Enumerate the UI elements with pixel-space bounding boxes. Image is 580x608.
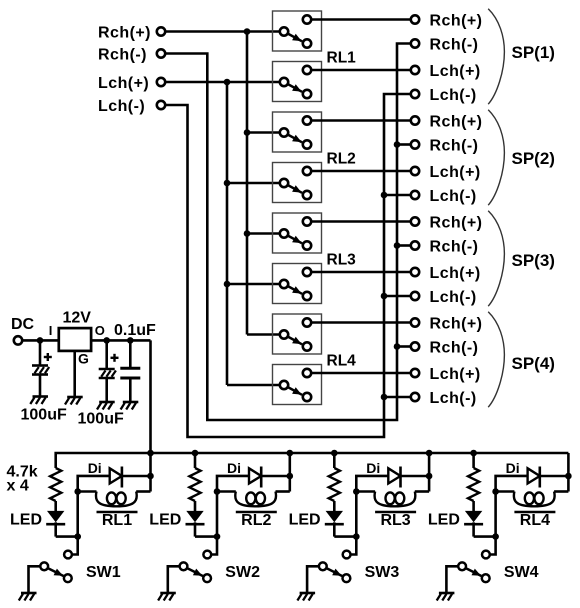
node cathode junction 1 <box>74 533 81 540</box>
wire coil right shoulder 2 <box>276 490 290 493</box>
node Lch(-) bus junction SP(3) <box>381 293 388 300</box>
wire DC to regulator <box>22 339 59 342</box>
wire R2 to LED2 <box>194 501 197 511</box>
svg-text:LED: LED <box>149 511 181 528</box>
label Di2 <box>227 460 241 476</box>
LED D3 <box>325 511 344 537</box>
wire SW2 to ground <box>168 566 180 593</box>
node cathode junction 4 <box>492 533 499 540</box>
svg-text:RL2: RL2 <box>241 512 271 529</box>
wire node up to diode anode 4 <box>496 476 528 537</box>
label Di4 <box>506 460 520 476</box>
wire SW1 to ground <box>29 566 41 593</box>
wire LED2 to node <box>195 535 217 538</box>
node Lch(+) bus junction <box>224 79 231 86</box>
wire node to switch 2 <box>211 537 217 555</box>
input terminal Rch(+) <box>98 24 165 41</box>
relay coil RL1 <box>96 492 137 507</box>
svg-text:SP(4): SP(4) <box>512 354 555 373</box>
brace SP(1) group <box>488 9 504 105</box>
wire regulator ground pin <box>73 351 76 397</box>
capacitor C3 0.1uF <box>120 340 140 402</box>
label DC <box>11 316 35 333</box>
svg-text:Lch(-): Lch(-) <box>98 98 145 115</box>
wire rail down to coil right 2 <box>288 453 291 492</box>
wire diode cathode 4 <box>540 475 569 478</box>
pin G <box>78 351 89 367</box>
capacitor C1 100uF <box>32 340 52 396</box>
coil overline RL4 <box>514 511 555 513</box>
svg-text:SP(3): SP(3) <box>512 251 555 270</box>
ground C2 <box>97 402 115 410</box>
label Di1 <box>88 460 102 476</box>
svg-text:DC: DC <box>11 316 35 333</box>
label SP(4) <box>512 354 555 373</box>
node Lch(+) bus to RL2 junction <box>224 180 231 187</box>
diode Di3 <box>388 467 400 488</box>
diode Di4 <box>528 467 540 488</box>
svg-text:Rch(-): Rch(-) <box>430 36 479 53</box>
svg-text:0.1uF: 0.1uF <box>114 322 156 339</box>
wire coil right shoulder 1 <box>136 490 150 493</box>
label RL2 <box>327 151 356 168</box>
svg-text:RL3: RL3 <box>380 512 410 529</box>
svg-text:LED: LED <box>289 511 321 528</box>
svg-text:Lch(-): Lch(-) <box>430 87 477 104</box>
svg-text:Lch(-): Lch(-) <box>430 390 477 407</box>
node Lch(-) bus junction SP(4) <box>381 394 388 401</box>
wire rail down to coil right 1 <box>149 453 152 492</box>
wire R1 to LED1 <box>54 501 57 511</box>
label 12V <box>63 310 92 327</box>
relay coil RL4 <box>514 492 555 507</box>
svg-text:Lch(+): Lch(+) <box>430 63 481 80</box>
label 100uF C1 <box>21 407 67 424</box>
coil overline RL3 <box>375 511 416 513</box>
label SW3 <box>365 564 400 581</box>
wire coil left shoulder 4 <box>496 490 515 493</box>
output terminal SP(1) Lch(-) <box>411 87 477 104</box>
node diode cathode junction 2 <box>287 473 294 480</box>
output terminal SP(4) Rch(+) <box>411 315 483 332</box>
terminal DC input <box>14 336 22 344</box>
svg-text:G: G <box>78 351 89 367</box>
output terminal SP(3) Lch(-) <box>411 289 477 306</box>
relay RL1 Rch contact <box>273 11 322 51</box>
LED D2 <box>186 511 205 537</box>
svg-text:SW2: SW2 <box>225 564 260 581</box>
wire LED4 to node <box>474 535 496 538</box>
switch SW4 <box>458 551 490 583</box>
wire coil right shoulder 3 <box>415 490 429 493</box>
wire rail to R4 <box>472 453 475 468</box>
ground SW4 <box>437 593 455 601</box>
node output cap junction <box>103 337 110 344</box>
wire rail down to coil right 3 <box>428 453 431 492</box>
relay RL2 Rch contact <box>273 112 322 152</box>
output terminal SP(3) Rch(-) <box>411 238 479 255</box>
svg-text:Di: Di <box>366 460 380 476</box>
label SP(2) <box>512 149 555 168</box>
svg-text:Rch(+): Rch(+) <box>430 113 483 130</box>
resistor R3 4.7k <box>329 468 340 501</box>
label RL3 coil <box>380 512 410 529</box>
wire rail to R3 <box>333 453 336 468</box>
ground SW1 <box>19 593 37 601</box>
ground C3 <box>121 402 139 410</box>
relay RL4 Rch contact <box>273 314 322 354</box>
svg-text:Rch(-): Rch(-) <box>430 137 479 154</box>
wire Lch(+) distribution bus <box>227 82 280 385</box>
svg-text:SW1: SW1 <box>86 564 121 581</box>
wire coil right shoulder 4 <box>554 490 568 493</box>
wire RL3 Rch output <box>311 220 411 223</box>
wire coil left shoulder 2 <box>217 490 236 493</box>
wire RL3 Lch output <box>311 271 411 274</box>
node cathode junction 3 <box>353 533 360 540</box>
svg-text:Lch(-): Lch(-) <box>430 289 477 306</box>
brace SP(3) group <box>488 211 504 307</box>
svg-text:Rch(-): Rch(-) <box>430 238 479 255</box>
svg-text:Lch(+): Lch(+) <box>98 75 149 92</box>
svg-text:Di: Di <box>88 460 102 476</box>
switch SW2 <box>180 551 212 583</box>
relay RL2 Lch contact <box>273 163 322 203</box>
wire node up to diode anode 3 <box>356 476 388 537</box>
wire diode cathode 2 <box>261 475 290 478</box>
node Rch(+) bus to RL2 junction <box>244 129 251 136</box>
resistor R4 4.7k <box>468 468 479 501</box>
ground SW2 <box>158 593 176 601</box>
svg-text:Di: Di <box>227 460 241 476</box>
wire SW4 to ground <box>446 566 458 593</box>
svg-text:RL1: RL1 <box>327 50 357 67</box>
svg-text:Rch(-): Rch(-) <box>98 46 147 63</box>
svg-text:SP(1): SP(1) <box>512 43 555 62</box>
relay RL3 Rch contact <box>273 213 322 253</box>
svg-text:RL3: RL3 <box>327 252 357 269</box>
svg-text:RL4: RL4 <box>520 512 550 529</box>
svg-text:Di: Di <box>506 460 520 476</box>
diode Di1 <box>110 467 122 488</box>
output terminal SP(1) Lch(+) <box>411 63 481 80</box>
wire Rch(+) input to relay contacts <box>165 30 280 33</box>
svg-text:Lch(+): Lch(+) <box>430 265 481 282</box>
node cathode junction 2 <box>214 533 221 540</box>
label RL2 coil <box>241 512 271 529</box>
label 4.7k x 4 <box>7 464 38 495</box>
LED D4 <box>464 511 483 537</box>
wire Rch(-) input to output bus <box>165 44 411 421</box>
input terminal Lch(+) <box>98 75 165 92</box>
label Di3 <box>366 460 380 476</box>
relay RL4 Lch contact <box>273 365 322 405</box>
wire rail to R2 <box>194 453 197 468</box>
resistor R2 4.7k <box>189 468 200 501</box>
svg-text:SP(2): SP(2) <box>512 149 555 168</box>
wire LED1 to node <box>56 535 78 538</box>
wire RL2 Rch output <box>311 119 411 122</box>
pin I <box>49 323 53 338</box>
svg-text:LED: LED <box>428 511 460 528</box>
wire node up to diode anode 1 <box>78 476 110 537</box>
node Rch(-) bus junction SP(3) <box>394 242 401 249</box>
svg-text:100uF: 100uF <box>78 411 124 428</box>
svg-text:Rch(+): Rch(+) <box>430 214 483 231</box>
wire RL1 Rch output <box>311 18 411 21</box>
node coil left junction 1 <box>74 488 81 495</box>
svg-text:Rch(+): Rch(+) <box>430 12 483 29</box>
node rail to R2 <box>192 450 199 457</box>
output terminal SP(3) Lch(+) <box>411 265 481 282</box>
pin O <box>95 323 105 338</box>
diode Di2 <box>249 467 261 488</box>
output terminal SP(2) Rch(-) <box>411 137 479 154</box>
label RL1 coil <box>102 512 132 529</box>
resistor R1 4.7k <box>50 468 61 501</box>
svg-text:Lch(-): Lch(-) <box>430 188 477 205</box>
relay RL1 Lch contact <box>273 62 322 102</box>
wire SW3 to ground <box>307 566 319 593</box>
output terminal SP(4) Rch(-) <box>411 339 479 356</box>
svg-text:RL2: RL2 <box>327 151 356 168</box>
node rail to R4 <box>470 450 477 457</box>
label RL3 <box>327 252 357 269</box>
wire RL1 Lch output <box>311 69 411 72</box>
wire R3 to LED3 <box>333 501 336 511</box>
node coil left junction 3 <box>353 488 360 495</box>
output terminal SP(2) Lch(+) <box>411 164 481 181</box>
relay coil RL3 <box>375 492 416 507</box>
svg-text:O: O <box>95 323 105 338</box>
output terminal SP(4) Lch(-) <box>411 390 477 407</box>
svg-text:12V: 12V <box>63 310 92 327</box>
wire Lch(-) stub <box>384 396 411 399</box>
svg-text:LED: LED <box>10 511 42 528</box>
label RL4 <box>327 353 357 370</box>
wire regulator output <box>91 339 150 342</box>
node diode cathode junction 1 <box>147 473 154 480</box>
node Rch(-) bus junction SP(4) <box>394 343 401 350</box>
label SP(1) <box>512 43 555 62</box>
capacitor C2 100uF <box>99 340 119 402</box>
wire Rch(+) distribution bus <box>247 32 280 335</box>
wire Lch(-) stub <box>384 295 411 298</box>
label RL4 coil <box>520 512 550 529</box>
wire RL4 Rch output <box>311 321 411 324</box>
output terminal SP(2) Lch(-) <box>411 188 477 205</box>
wire RL2 Lch output <box>311 170 411 173</box>
svg-text:100uF: 100uF <box>21 407 67 424</box>
wire rail down to coil right 4 <box>567 453 570 492</box>
ground SW3 <box>297 593 315 601</box>
input terminal Lch(-) <box>98 98 165 115</box>
wire Rch(-) stub <box>397 345 411 348</box>
svg-text:I: I <box>49 323 53 338</box>
wire Rch(-) stub <box>397 244 411 247</box>
node Lch(+) bus to RL3 junction <box>224 281 231 288</box>
wire node to switch 4 <box>490 537 496 555</box>
switch SW1 <box>40 551 72 583</box>
svg-text:Rch(+): Rch(+) <box>430 315 483 332</box>
node Rch(-) bus junction SP(2) <box>394 141 401 148</box>
label SP(3) <box>512 251 555 270</box>
output terminal SP(1) Rch(+) <box>411 12 483 29</box>
node rail to R3 <box>331 450 338 457</box>
svg-text:SW4: SW4 <box>504 564 539 581</box>
output terminal SP(2) Rch(+) <box>411 113 483 130</box>
label LED4 <box>428 511 460 528</box>
node input cap junction <box>37 337 44 344</box>
output terminal SP(1) Rch(-) <box>411 36 479 53</box>
node coil left junction 4 <box>492 488 499 495</box>
label SW1 <box>86 564 121 581</box>
relay RL3 Lch contact <box>273 264 322 304</box>
wire Lch(-) input to output bus <box>165 94 411 437</box>
label LED2 <box>149 511 181 528</box>
label SW2 <box>225 564 260 581</box>
node Rch(+) bus junction <box>244 28 251 35</box>
output terminal SP(4) Lch(+) <box>411 366 481 383</box>
wire Rch(-) stub <box>397 143 411 146</box>
ground C1 <box>30 397 48 405</box>
node 0.1uF junction <box>127 337 134 344</box>
node diode cathode junction 3 <box>426 473 433 480</box>
switch SW3 <box>319 551 351 583</box>
output terminal SP(3) Rch(+) <box>411 214 483 231</box>
wire Lch(+) input to relay contacts <box>165 81 280 84</box>
relay coil RL2 <box>235 492 276 507</box>
wire node to switch 3 <box>351 537 357 555</box>
input terminal Rch(-) <box>98 46 165 63</box>
svg-text:Lch(+): Lch(+) <box>430 366 481 383</box>
wire coil left shoulder 3 <box>356 490 375 493</box>
svg-text:SW3: SW3 <box>365 564 400 581</box>
wire diode cathode 3 <box>401 475 430 478</box>
svg-text:RL1: RL1 <box>102 512 132 529</box>
svg-text:Rch(-): Rch(-) <box>430 339 479 356</box>
label SW4 <box>504 564 539 581</box>
svg-text:Rch(+): Rch(+) <box>98 24 151 41</box>
node rail to coil 2 <box>287 450 294 457</box>
wire node up to diode anode 2 <box>217 476 249 537</box>
brace SP(4) group <box>488 312 504 408</box>
label LED1 <box>10 511 42 528</box>
wire diode cathode 1 <box>122 475 151 478</box>
label RL1 <box>327 50 357 67</box>
svg-text:x 4: x 4 <box>7 478 29 495</box>
wire coil left shoulder 1 <box>78 490 97 493</box>
label 0.1uF <box>114 322 156 339</box>
label LED3 <box>289 511 321 528</box>
coil overline RL1 <box>97 511 138 513</box>
node Rch(+) bus to RL3 junction <box>244 230 251 237</box>
wire RL4 Lch output <box>311 372 411 375</box>
ground regulator <box>65 397 83 405</box>
wire Lch(-) stub <box>384 194 411 197</box>
regulator U1 12V <box>59 328 91 351</box>
node rail to coil 3 <box>426 450 433 457</box>
wire LED3 to node <box>334 535 356 538</box>
LED D1 <box>46 511 65 537</box>
node diode cathode junction 4 <box>565 473 572 480</box>
label 100uF C2 <box>78 411 124 428</box>
wire +12V rail <box>56 453 569 468</box>
coil overline RL2 <box>236 511 277 513</box>
node coil left junction 2 <box>214 488 221 495</box>
wire R4 to LED4 <box>472 501 475 511</box>
svg-text:Lch(+): Lch(+) <box>430 164 481 181</box>
svg-text:RL4: RL4 <box>327 353 357 370</box>
node Lch(-) bus junction SP(2) <box>381 192 388 199</box>
brace SP(2) group <box>488 110 504 206</box>
wire node to switch 1 <box>72 537 78 555</box>
node rail 12V feed junction <box>147 450 154 457</box>
wire 12V feed down to rail <box>149 340 152 453</box>
